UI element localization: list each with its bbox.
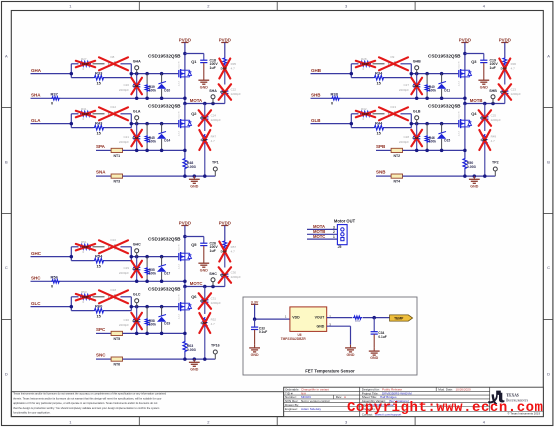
capacitor C26 1uF bbox=[185, 237, 218, 261]
wire bbox=[123, 149, 185, 151]
wire bbox=[184, 77, 186, 103]
svg-text:MOTB: MOTB bbox=[313, 229, 325, 234]
svg-text:4.7: 4.7 bbox=[211, 139, 216, 143]
svg-text:GND: GND bbox=[480, 85, 488, 89]
svg-text:C30: C30 bbox=[123, 318, 129, 322]
net label SHB bbox=[311, 93, 321, 98]
svg-text:SHA: SHA bbox=[209, 89, 217, 93]
svg-text:DNP: DNP bbox=[480, 116, 486, 120]
resistor R34 bbox=[374, 70, 385, 85]
wire bbox=[255, 304, 290, 319]
wire bbox=[464, 104, 466, 121]
svg-text:5,6,7,8: 5,6,7,8 bbox=[178, 111, 180, 118]
wire bbox=[403, 175, 496, 177]
wire bbox=[184, 43, 186, 71]
svg-text:TP1: TP1 bbox=[212, 161, 219, 165]
zener diode D17 bbox=[157, 257, 170, 282]
svg-text:R50: R50 bbox=[467, 161, 474, 165]
svg-text:5,6,7,8: 5,6,7,8 bbox=[178, 244, 180, 251]
net label SNC bbox=[96, 353, 106, 358]
wire bbox=[363, 317, 390, 319]
resistor R44 bbox=[374, 120, 385, 135]
svg-text:DNP: DNP bbox=[413, 84, 419, 88]
svg-text:C: C bbox=[5, 265, 8, 270]
svg-text:D14: D14 bbox=[164, 139, 170, 143]
net MOTC switch node bbox=[185, 281, 225, 287]
net tie NT4 bbox=[391, 174, 402, 184]
svg-text:SPC: SPC bbox=[96, 327, 106, 332]
svg-text:R36: R36 bbox=[511, 62, 517, 66]
net label SPB bbox=[376, 144, 386, 149]
svg-text:DNP: DNP bbox=[221, 67, 227, 71]
wire bbox=[71, 247, 131, 261]
svg-text:TMP235A2DBZR: TMP235A2DBZR bbox=[281, 337, 307, 341]
svg-text:C29: C29 bbox=[123, 266, 129, 270]
svg-text:D12: D12 bbox=[111, 105, 117, 109]
net MOTC wire to J5 bbox=[307, 234, 337, 239]
svg-text:4.7: 4.7 bbox=[231, 67, 236, 71]
svg-text:DNP: DNP bbox=[501, 67, 507, 71]
svg-text:D8: D8 bbox=[111, 55, 115, 59]
svg-text:C23: C23 bbox=[511, 88, 517, 92]
wire bbox=[96, 175, 111, 177]
svg-text:SNB: SNB bbox=[376, 170, 386, 175]
svg-text:VDD: VDD bbox=[292, 315, 300, 319]
ground bbox=[198, 260, 209, 272]
svg-text:CSD19532Q5B: CSD19532Q5B bbox=[148, 104, 181, 109]
svg-text:GND: GND bbox=[251, 353, 259, 357]
svg-text:5,6,7,8: 5,6,7,8 bbox=[458, 111, 460, 118]
pin numbers J5 bbox=[333, 225, 335, 239]
resistor R55 100k bbox=[145, 257, 156, 282]
svg-text:GHC: GHC bbox=[133, 243, 141, 247]
svg-text:GHC: GHC bbox=[31, 251, 42, 256]
wire bbox=[184, 260, 186, 286]
svg-text:C19: C19 bbox=[490, 59, 496, 63]
svg-text:1uF: 1uF bbox=[210, 66, 217, 70]
svg-text:MOTC: MOTC bbox=[313, 234, 325, 239]
svg-text:GHB: GHB bbox=[413, 60, 421, 64]
wire bbox=[71, 247, 131, 261]
wire bbox=[464, 43, 466, 71]
svg-text:MOTB: MOTB bbox=[470, 98, 483, 103]
svg-text:Designed for:: Designed for: bbox=[362, 388, 380, 392]
svg-text:R38: R38 bbox=[331, 92, 339, 97]
svg-text:DNP: DNP bbox=[82, 62, 88, 66]
wire bbox=[184, 287, 186, 304]
svg-text:100k: 100k bbox=[149, 139, 157, 143]
svg-text:100k: 100k bbox=[149, 271, 157, 275]
svg-text:Project Title:: Project Title: bbox=[362, 391, 379, 395]
wire bbox=[123, 175, 216, 177]
svg-text:4.7: 4.7 bbox=[491, 139, 496, 143]
svg-text:0: 0 bbox=[331, 101, 333, 106]
svg-text:Drawn By:: Drawn By: bbox=[285, 403, 299, 407]
net MOTA wire to J5 bbox=[307, 224, 337, 229]
resistor R28 (DNP) bbox=[356, 57, 375, 71]
svg-text:GND: GND bbox=[470, 184, 478, 188]
svg-text:DNP: DNP bbox=[362, 62, 368, 66]
junction bbox=[70, 305, 164, 309]
capacitor C30 (DNP) bbox=[119, 307, 142, 334]
svg-text:SNC: SNC bbox=[96, 353, 106, 358]
test point GHA bbox=[133, 60, 141, 74]
svg-text:DNP: DNP bbox=[201, 321, 207, 325]
svg-text:TEMP: TEMP bbox=[394, 316, 404, 320]
resistor R53 (DNP) bbox=[76, 290, 95, 304]
svg-text:Mod. Date:: Mod. Date: bbox=[438, 388, 453, 392]
svg-text:Half Bridges: Half Bridges bbox=[380, 395, 397, 399]
svg-text:4.7: 4.7 bbox=[511, 67, 516, 71]
svg-text:0.1uF: 0.1uF bbox=[378, 335, 386, 339]
svg-text:SNA: SNA bbox=[96, 170, 106, 175]
net tie NT6 bbox=[111, 357, 122, 367]
svg-text:D: D bbox=[547, 372, 550, 377]
net MOTA switch node bbox=[185, 98, 225, 104]
net label SHC bbox=[31, 276, 41, 281]
capacitor C27 (DNP) bbox=[399, 74, 422, 99]
svg-text:C21: C21 bbox=[123, 135, 129, 139]
ground bbox=[345, 345, 356, 357]
svg-text:0.003: 0.003 bbox=[187, 165, 196, 169]
watermark bbox=[347, 400, 544, 416]
svg-text:R43: R43 bbox=[95, 120, 103, 125]
test point SHB bbox=[489, 89, 497, 104]
net label SNB bbox=[376, 170, 386, 175]
svg-text:1uF: 1uF bbox=[210, 249, 217, 253]
wire bbox=[131, 256, 178, 258]
power PVDD bbox=[459, 37, 471, 42]
svg-text:R60: R60 bbox=[95, 303, 103, 308]
wire bbox=[411, 123, 458, 125]
svg-text:PVDD: PVDD bbox=[179, 37, 191, 42]
svg-text:DNP: DNP bbox=[362, 112, 368, 116]
wire bbox=[60, 280, 185, 282]
svg-text:Q2: Q2 bbox=[191, 111, 197, 116]
wire bbox=[351, 114, 411, 128]
svg-text:SHB: SHB bbox=[311, 93, 321, 98]
svg-text:R47: R47 bbox=[211, 135, 217, 139]
resistor R39 100k bbox=[145, 74, 156, 99]
wire bbox=[340, 97, 465, 99]
svg-text:0.003: 0.003 bbox=[187, 348, 196, 352]
svg-text:Rev:: Rev: bbox=[336, 395, 342, 399]
junction bbox=[183, 174, 206, 178]
TI logo bbox=[488, 391, 528, 405]
svg-text:C: C bbox=[547, 265, 550, 270]
test point TP1 bbox=[212, 161, 219, 177]
svg-text:SHC: SHC bbox=[209, 272, 217, 276]
svg-text:R44: R44 bbox=[375, 120, 383, 125]
wire bbox=[351, 64, 411, 78]
junction bbox=[70, 72, 164, 76]
svg-text:MOTC: MOTC bbox=[190, 281, 203, 286]
resistor R52 (DNP) bbox=[199, 313, 216, 359]
svg-text:C27: C27 bbox=[403, 83, 409, 87]
wire bbox=[31, 256, 72, 258]
svg-text:R33: R33 bbox=[95, 70, 103, 75]
svg-text:CSD19532Q5B: CSD19532Q5B bbox=[428, 104, 461, 109]
resistor R64 bbox=[353, 316, 362, 323]
diode D18 (DNP) bbox=[99, 288, 128, 303]
diode D9 (DNP) bbox=[379, 55, 408, 70]
connector J5 Motor OUT bbox=[334, 218, 356, 249]
svg-text:R52: R52 bbox=[211, 318, 217, 322]
svg-text:NT4: NT4 bbox=[393, 180, 400, 184]
net label GLB bbox=[311, 118, 321, 123]
svg-text:NT1: NT1 bbox=[113, 154, 120, 158]
svg-text:DNP: DNP bbox=[82, 295, 88, 299]
capacitor C30 (DNP) bbox=[219, 267, 241, 286]
svg-text:D10: D10 bbox=[164, 89, 170, 93]
svg-text:DNP: DNP bbox=[481, 138, 487, 142]
junction bbox=[135, 97, 187, 101]
svg-text:SPB: SPB bbox=[376, 144, 386, 149]
svg-text:GHB: GHB bbox=[311, 68, 322, 73]
junction bbox=[415, 97, 467, 101]
svg-text:D9: D9 bbox=[391, 55, 395, 59]
svg-text:3: 3 bbox=[333, 225, 335, 229]
junction bbox=[183, 235, 187, 239]
svg-text:2200pF: 2200pF bbox=[211, 118, 221, 122]
svg-text:Orderable:: Orderable: bbox=[285, 388, 299, 392]
svg-text:C24: C24 bbox=[211, 114, 217, 118]
wire bbox=[31, 306, 72, 308]
capacitor C19 1uF bbox=[465, 54, 498, 78]
net MOTB switch node bbox=[465, 98, 505, 104]
diode D12 (DNP) bbox=[99, 105, 128, 120]
svg-text:R32: R32 bbox=[361, 107, 367, 111]
wire bbox=[71, 114, 131, 128]
net label SPA bbox=[96, 144, 106, 149]
wire VOUT bbox=[327, 317, 353, 319]
svg-text:Q5: Q5 bbox=[191, 242, 197, 247]
svg-text:R54: R54 bbox=[95, 253, 103, 258]
resistor R31 (DNP) bbox=[76, 107, 95, 121]
svg-text:100V: 100V bbox=[490, 62, 499, 66]
ground bbox=[189, 176, 200, 188]
svg-text:Not in version control: Not in version control bbox=[301, 399, 330, 403]
svg-text:PVDD: PVDD bbox=[179, 220, 191, 225]
svg-text:TP2: TP2 bbox=[492, 161, 499, 165]
wire bbox=[411, 73, 458, 75]
net label GHB bbox=[311, 68, 322, 73]
title block bbox=[284, 387, 544, 416]
wire bbox=[403, 149, 465, 151]
svg-text:T: T bbox=[506, 393, 509, 398]
svg-text:B: B bbox=[5, 160, 8, 165]
svg-text:DNP: DNP bbox=[221, 250, 227, 254]
svg-text:DNP: DNP bbox=[500, 90, 506, 94]
junction bbox=[372, 316, 376, 320]
svg-text:R64: R64 bbox=[355, 319, 361, 323]
test point TP2 bbox=[492, 161, 499, 177]
svg-text:C34: C34 bbox=[378, 331, 384, 335]
svg-text:DNP: DNP bbox=[82, 245, 88, 249]
svg-text:2200pF: 2200pF bbox=[399, 140, 409, 144]
svg-text:NT3: NT3 bbox=[113, 180, 120, 184]
diode D13 (DNP) bbox=[379, 105, 408, 120]
svg-text:4.7: 4.7 bbox=[231, 250, 236, 254]
wire bbox=[184, 104, 186, 121]
svg-text:NT6: NT6 bbox=[113, 363, 120, 367]
svg-text:GHA: GHA bbox=[31, 68, 42, 73]
svg-text:CSD19532Q5B: CSD19532Q5B bbox=[148, 287, 181, 292]
resistor R33 bbox=[94, 70, 105, 85]
capacitor C20 (DNP) bbox=[119, 74, 142, 99]
power PVDD bbox=[219, 37, 231, 42]
svg-text:R57: R57 bbox=[231, 245, 237, 249]
svg-text:GND: GND bbox=[370, 356, 378, 360]
svg-text:D17: D17 bbox=[164, 272, 170, 276]
svg-text:Engineer:: Engineer: bbox=[285, 407, 298, 411]
svg-text:C18: C18 bbox=[210, 59, 216, 63]
capacitor C31 (DNP) bbox=[199, 287, 221, 315]
MOSFET Q1 CSD19532Q5B bbox=[148, 54, 197, 87]
svg-text:0.003: 0.003 bbox=[467, 165, 476, 169]
svg-text:DRV8350RS-WAEVM: DRV8350RS-WAEVM bbox=[382, 391, 412, 395]
svg-text:R37: R37 bbox=[51, 92, 59, 97]
power PVDD bbox=[499, 37, 511, 42]
IC U6 TMP235A2DBZR bbox=[281, 307, 332, 341]
FET temperature sensor box bbox=[243, 297, 417, 375]
svg-text:Public Release: Public Release bbox=[382, 388, 403, 392]
test point SHC bbox=[209, 272, 217, 287]
zener diode D14 bbox=[157, 124, 170, 151]
resistor R47 (DNP) bbox=[199, 130, 216, 176]
resistor R27 (DNP) bbox=[76, 57, 95, 71]
capacitor C18 1uF bbox=[185, 54, 218, 78]
svg-text:R51: R51 bbox=[81, 240, 87, 244]
ground bbox=[249, 345, 260, 357]
net label SPC bbox=[96, 327, 106, 332]
svg-text:DNP: DNP bbox=[220, 90, 226, 94]
net label GLA bbox=[31, 118, 41, 123]
net label GHA bbox=[31, 68, 42, 73]
wire bbox=[464, 127, 466, 157]
svg-text:DNP: DNP bbox=[200, 116, 206, 120]
svg-text:GND: GND bbox=[190, 184, 198, 188]
wire bbox=[71, 297, 131, 311]
svg-text:C30: C30 bbox=[231, 271, 237, 275]
svg-text:U6: U6 bbox=[298, 333, 302, 337]
svg-text:2200pF: 2200pF bbox=[119, 323, 129, 327]
MOSFET Q2 CSD19532Q5B bbox=[148, 104, 197, 137]
svg-text:VOUT: VOUT bbox=[315, 315, 326, 319]
wire bbox=[311, 73, 352, 75]
svg-text:2200pF: 2200pF bbox=[399, 88, 409, 92]
svg-text:R35: R35 bbox=[231, 62, 237, 66]
svg-text:MOTA: MOTA bbox=[313, 224, 325, 229]
wire bbox=[31, 73, 72, 75]
zener diode D19 bbox=[157, 307, 170, 334]
wire bbox=[131, 123, 178, 125]
capacitor C25 (DNP) bbox=[479, 104, 501, 132]
junction bbox=[183, 285, 215, 289]
net MOTB wire to J5 bbox=[307, 229, 337, 234]
svg-text:SHA: SHA bbox=[31, 93, 41, 98]
svg-text:D16: D16 bbox=[111, 238, 117, 242]
svg-text:Q3: Q3 bbox=[471, 59, 477, 64]
svg-text:A: A bbox=[547, 54, 550, 59]
svg-text:R56: R56 bbox=[51, 275, 59, 280]
svg-text:CSD19532Q5B: CSD19532Q5B bbox=[148, 237, 181, 242]
power 3.3V bbox=[251, 300, 259, 304]
svg-text:R34: R34 bbox=[375, 70, 383, 75]
svg-text:MD029: MD029 bbox=[301, 395, 311, 399]
svg-text:GND: GND bbox=[190, 367, 198, 371]
MOSFET Q3 CSD19532Q5B bbox=[428, 54, 477, 87]
MOSFET Q5 CSD19532Q5B bbox=[148, 237, 197, 270]
MOSFET Q4 CSD19532Q5B bbox=[428, 104, 477, 137]
svg-text:R49: R49 bbox=[491, 135, 497, 139]
svg-text:MOTA: MOTA bbox=[190, 98, 202, 103]
svg-text:GND: GND bbox=[347, 353, 355, 357]
svg-text:2200pF: 2200pF bbox=[119, 271, 129, 275]
resistor R37 0 bbox=[31, 92, 61, 106]
wire bbox=[184, 310, 186, 340]
svg-text:5,6,7,8: 5,6,7,8 bbox=[178, 61, 180, 68]
wire bbox=[376, 149, 391, 151]
svg-text:1,2,3: 1,2,3 bbox=[458, 81, 460, 87]
junction bbox=[415, 149, 467, 153]
svg-text:CSD19532Q5B: CSD19532Q5B bbox=[148, 54, 181, 59]
svg-text:100k: 100k bbox=[429, 88, 437, 92]
svg-text:Motor OUT: Motor OUT bbox=[334, 218, 356, 223]
svg-text:NT2: NT2 bbox=[393, 154, 400, 158]
svg-text:PVDD: PVDD bbox=[219, 220, 231, 225]
svg-text:SHC: SHC bbox=[31, 276, 41, 281]
svg-text:5,6,7,8: 5,6,7,8 bbox=[458, 61, 460, 68]
svg-text:TP16: TP16 bbox=[211, 344, 220, 348]
net tie NT2 bbox=[391, 148, 402, 158]
ground bbox=[198, 77, 209, 89]
wire bbox=[464, 77, 466, 103]
junction bbox=[350, 72, 444, 76]
svg-text:R27: R27 bbox=[81, 57, 87, 61]
resistor R56 0 bbox=[31, 275, 61, 289]
svg-text:1uF: 1uF bbox=[490, 66, 497, 70]
MOSFET Q6 CSD19532Q5B bbox=[148, 287, 197, 320]
svg-text:2200pF: 2200pF bbox=[231, 92, 241, 96]
svg-text:R31: R31 bbox=[81, 107, 87, 111]
capacitor C22 (DNP) bbox=[219, 84, 241, 103]
resistor R38 0 bbox=[311, 92, 341, 106]
wire bbox=[31, 123, 72, 125]
test point GLB bbox=[413, 110, 421, 124]
test point GHC bbox=[133, 243, 141, 257]
test point GLC bbox=[133, 293, 141, 307]
svg-text:3.3V: 3.3V bbox=[251, 300, 259, 304]
net tie NT1 bbox=[111, 148, 122, 158]
svg-text:B: B bbox=[547, 160, 550, 165]
test point TP16 bbox=[211, 344, 220, 360]
svg-text:10/26/2020: 10/26/2020 bbox=[456, 388, 471, 392]
ground bbox=[189, 359, 200, 371]
junction bbox=[183, 357, 206, 361]
wire bbox=[184, 127, 186, 157]
svg-text:2200pF: 2200pF bbox=[211, 301, 221, 305]
svg-text:C25: C25 bbox=[491, 114, 497, 118]
junction bbox=[70, 255, 164, 259]
svg-text:5,6,7,8: 5,6,7,8 bbox=[178, 294, 180, 301]
resistor R57 (DNP) bbox=[219, 226, 236, 268]
svg-text:R53: R53 bbox=[81, 290, 87, 294]
svg-text:PVDD: PVDD bbox=[499, 37, 511, 42]
junction bbox=[135, 149, 187, 153]
svg-text:C22: C22 bbox=[231, 88, 237, 92]
svg-text:C28: C28 bbox=[403, 135, 409, 139]
